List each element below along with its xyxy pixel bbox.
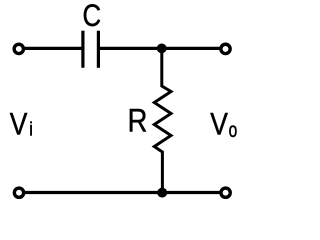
svg-text:i: i <box>29 118 33 140</box>
terminal input bottom (Vi-) <box>14 188 23 197</box>
terminal input top (Vi+) <box>14 44 23 53</box>
svg-text:o: o <box>229 118 238 142</box>
svg-text:V: V <box>210 107 228 142</box>
terminal output bottom (Vo-) <box>221 188 230 197</box>
terminal output top (Vo+) <box>221 44 230 53</box>
svg-text:C: C <box>83 0 102 34</box>
node junction top (resistor tap) <box>157 44 167 54</box>
wire: bottom rail <box>23 191 221 194</box>
node junction bottom (resistor to bottom rail) <box>157 188 167 198</box>
capacitor C1 left plate <box>81 31 84 68</box>
resistor R1 (zigzag with leads) <box>154 48 171 192</box>
svg-text:V: V <box>10 107 28 142</box>
svg-text:R: R <box>128 103 148 138</box>
wire: top-left segment from input terminal to capacitor <box>23 47 83 50</box>
wire: top segment from capacitor to output terminal <box>98 47 220 50</box>
capacitor C1 right plate <box>97 31 100 68</box>
